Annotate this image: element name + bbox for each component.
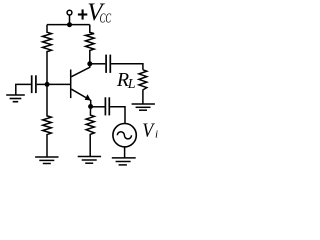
ground GV under source <box>112 158 136 165</box>
transistor Q1 <box>70 70 72 99</box>
label Vi <box>142 120 158 142</box>
label +VCC <box>78 0 112 27</box>
ground GL under RL <box>132 104 155 110</box>
wire emitter node to CE <box>91 106 105 108</box>
emitter arrow <box>85 94 91 100</box>
terminal VCC circle <box>67 10 72 15</box>
wire collector node to CO <box>90 63 106 65</box>
wire CB to node A <box>37 83 47 85</box>
ground GE under RE <box>78 157 101 164</box>
capacitor CO (output coupling) <box>106 55 110 73</box>
wire CO to RL <box>111 64 143 70</box>
capacitor CB (base bypass) <box>32 75 36 93</box>
wire top rail <box>47 24 90 26</box>
resistor RE (emitter) <box>86 107 94 157</box>
ground G2 under R2 <box>35 157 58 164</box>
resistor RC (upper right) <box>86 25 95 64</box>
resistor RL (load) <box>139 70 147 104</box>
label RL <box>116 69 136 92</box>
node top junction dot <box>67 22 72 27</box>
wire VCC stem <box>69 15 71 24</box>
wire source to ground <box>124 147 126 158</box>
resistor R2 (lower left) <box>43 84 52 156</box>
collector <box>71 64 89 77</box>
source sine <box>117 132 131 139</box>
node E junction dot (emitter node) <box>88 104 93 109</box>
wire base <box>47 83 70 85</box>
ground GB (left, for bypass capacitor) <box>16 84 31 94</box>
resistor R1 (upper left) <box>43 25 52 85</box>
svg-text:L: L <box>127 77 136 92</box>
node A junction dot (base node) <box>45 82 50 87</box>
svg-text:i: i <box>155 129 158 141</box>
emitter <box>71 89 90 106</box>
svg-text:CC: CC <box>100 12 112 27</box>
wire CE to source <box>110 107 125 124</box>
capacitor CE (input coupling) <box>105 97 109 115</box>
source Vi circle <box>113 124 136 147</box>
node C junction dot (collector node) <box>87 61 92 66</box>
